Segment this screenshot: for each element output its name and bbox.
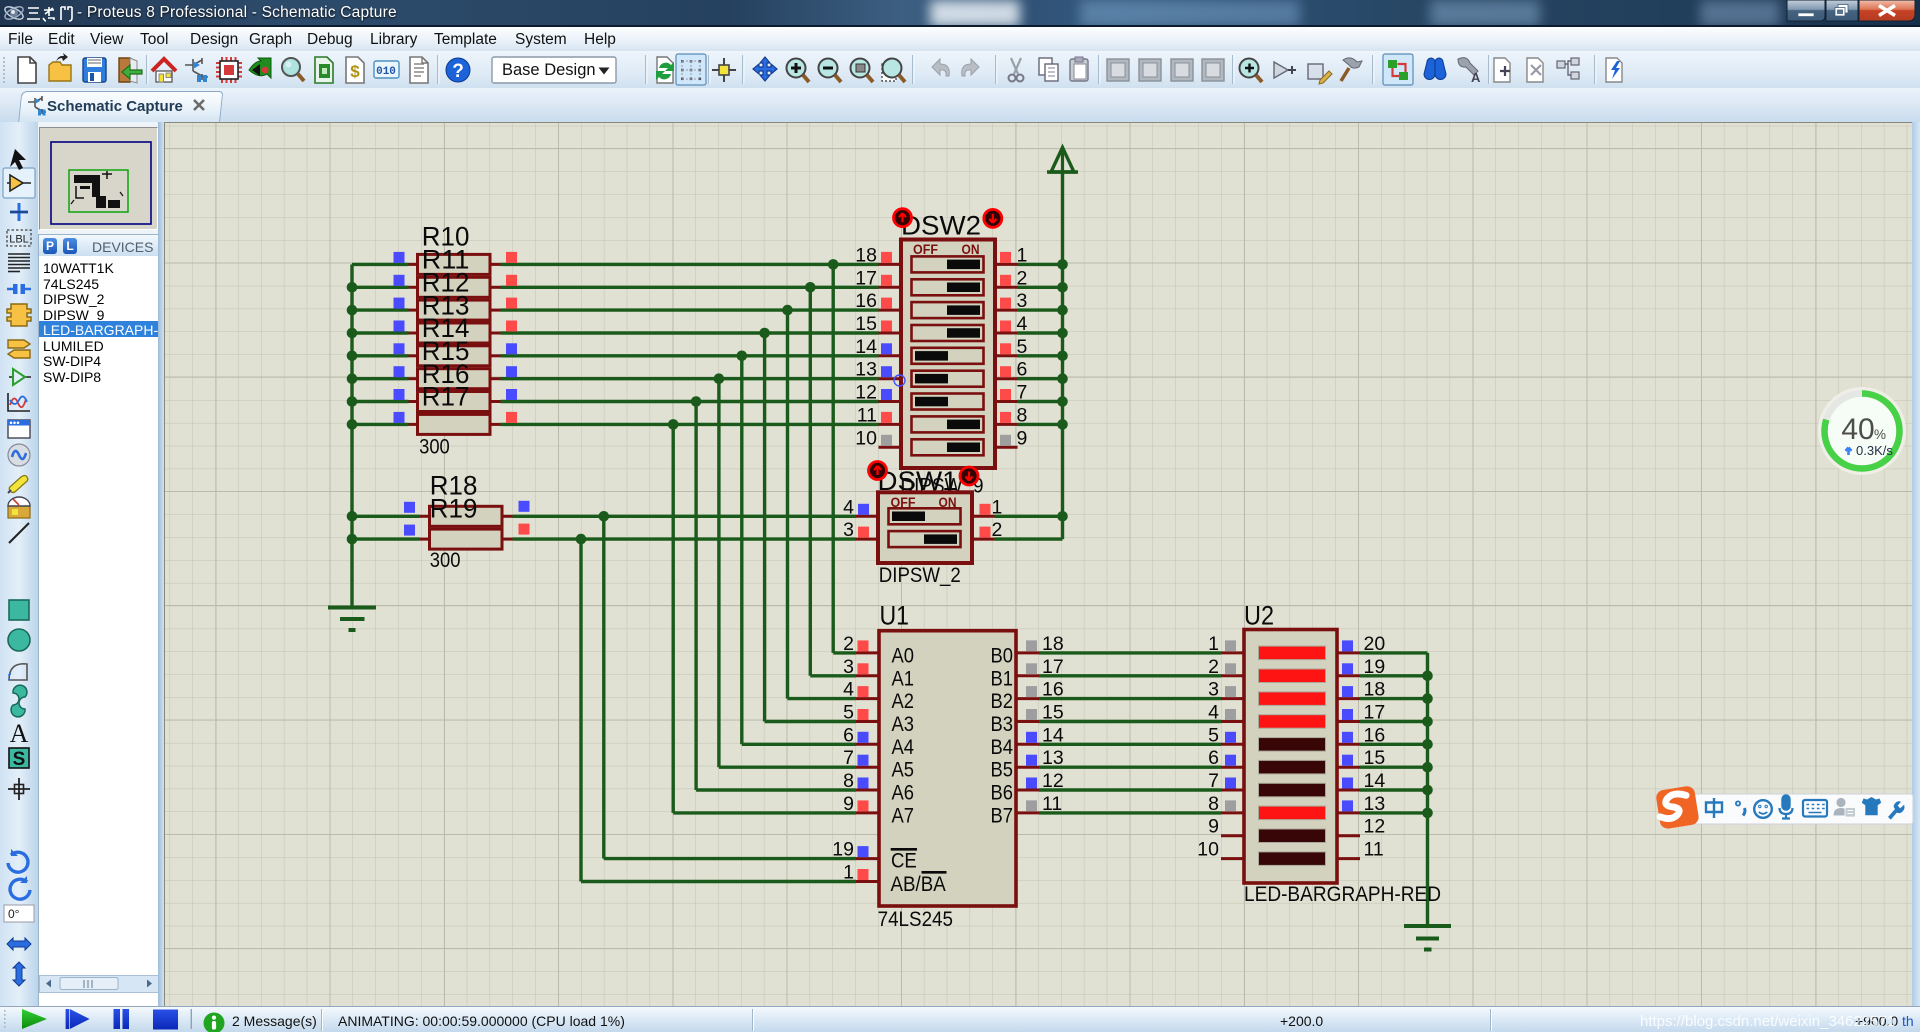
junction ground bus row 18 [1422, 693, 1433, 704]
U1 pin 17 (B1) [1016, 656, 1064, 678]
U2 pin 12 [1337, 816, 1385, 838]
wire DSW2 pin 3 to power bus [1018, 308, 1063, 311]
wire row R19 left [352, 537, 420, 540]
DSW2 pin 12 [855, 382, 901, 404]
label DSW2 [901, 211, 981, 241]
svg-text:010: 010 [376, 66, 396, 78]
svg-text:A: A [10, 719, 29, 748]
svg-text:10: 10 [855, 427, 877, 449]
label DIPSW_2 (DSW1 value) [879, 564, 961, 587]
label U2 [1244, 601, 1274, 631]
wire left ground bus vertical [350, 264, 353, 607]
DSW2 pin 17 [855, 267, 901, 289]
U1 pin 4 (A2) [843, 679, 879, 701]
DSW2 down actuator [984, 209, 1002, 227]
junction row R12 drop [782, 305, 793, 316]
junction left bus row R19 [347, 534, 358, 545]
wire U1 B5 to U2 pin 6 [1039, 766, 1221, 769]
svg-text:B6: B6 [991, 781, 1014, 805]
resistor R15 [394, 366, 518, 389]
wire to U1 pin A1 [810, 674, 856, 677]
label R17 [422, 382, 470, 412]
svg-text:2: 2 [843, 633, 854, 655]
svg-text:?: ? [452, 61, 464, 82]
svg-text:$: $ [350, 62, 360, 81]
wire to U1 pin A5 [719, 766, 856, 769]
svg-text:9: 9 [1017, 427, 1028, 449]
svg-text:74LS245: 74LS245 [878, 908, 953, 931]
svg-text:B2: B2 [991, 689, 1014, 713]
ground symbol right [1404, 926, 1451, 950]
wire row R16 to DSW2 pin 12 [501, 400, 879, 403]
DSW2 pin 1 [995, 244, 1027, 266]
junction power bus row 4 [1057, 328, 1068, 339]
wire U2 pin 17 to ground bus [1360, 720, 1428, 723]
label 74LS245 [878, 908, 953, 931]
wire row R17 left [352, 423, 409, 426]
svg-text:A0: A0 [892, 643, 915, 667]
svg-text:DSW1: DSW1 [878, 466, 958, 496]
wire row R11 to DSW2 pin 17 [501, 286, 879, 289]
U2 pin 5 [1208, 724, 1244, 746]
svg-text:3: 3 [1208, 679, 1219, 701]
svg-text:3: 3 [843, 656, 854, 678]
svg-text:14: 14 [855, 336, 877, 358]
svg-text:A2: A2 [892, 689, 915, 713]
wire row R13 to DSW2 pin 15 [501, 331, 879, 334]
junction ground bus row 13 [1422, 808, 1433, 819]
DSW2 pin 7 [995, 382, 1027, 404]
DSW2 switch 8 [912, 416, 984, 432]
svg-text:LED-BARGRAPH-RED: LED-BARGRAPH-RED [1244, 883, 1441, 906]
U1 pin 1 (AB/BA) [843, 862, 879, 884]
wire row R18 left [352, 515, 420, 518]
wire U1 B1 to U2 pin 2 [1039, 674, 1221, 677]
svg-text:U1: U1 [880, 601, 910, 631]
wire row R10 to DSW2 pin 18 [501, 263, 879, 266]
label R13 [422, 290, 470, 320]
DSW1 pin 2 [972, 519, 1002, 541]
wire row R15 left [352, 377, 409, 380]
wire row R18 to DSW1 [513, 515, 856, 518]
LED bar 7 [1259, 783, 1326, 797]
U2 pin 11 [1337, 839, 1384, 861]
wire vertical R12 to U1 A2 [786, 310, 789, 698]
wire vertical R10 to U1 A0 [832, 264, 835, 653]
DSW2 switch 4 [912, 325, 984, 341]
wire vertical R13 to U1 A3 [763, 333, 766, 722]
DSW1 pin 3 [843, 519, 878, 541]
label R16 [422, 359, 470, 389]
junction R18 drop [599, 511, 610, 522]
wire vertical R19 to U1 AB/BA [579, 539, 582, 881]
wire vertical R18 to U1 CE [602, 516, 605, 858]
svg-text:6: 6 [1208, 747, 1219, 769]
svg-text:%: % [1874, 427, 1886, 442]
junction ground bus row 14 [1422, 785, 1433, 796]
junction power bus row 1 [1057, 259, 1068, 270]
junction power bus row 6 [1057, 373, 1068, 384]
DSW2 pin 6 [995, 359, 1027, 381]
wire to U1 pin A0 [833, 651, 856, 654]
wire vertical R17 to U1 A7 [672, 424, 675, 813]
DSW1 switch 2 [889, 531, 961, 547]
junction ground bus row 16 [1422, 739, 1433, 750]
wire U1 B2 to U2 pin 3 [1039, 697, 1221, 700]
svg-text:U2: U2 [1244, 601, 1274, 631]
U2 pin 6 [1208, 747, 1244, 769]
DSW2 pin 3 [995, 290, 1027, 312]
wire row R12 left [352, 308, 409, 311]
U2 pin 1 [1208, 633, 1244, 655]
wire row R15 to DSW2 pin 13 [501, 377, 879, 380]
svg-text:7: 7 [1208, 770, 1219, 792]
svg-text:OFF: OFF [913, 241, 938, 257]
wire DSW2 pin 8 to power bus [1018, 423, 1063, 426]
svg-text:R17: R17 [422, 382, 470, 412]
wire U2 pin 15 to ground bus [1360, 766, 1428, 769]
DSW2 pin 9 [995, 427, 1027, 449]
wire U2 pin 20 to ground bus [1360, 651, 1428, 654]
LED bar 6 [1259, 760, 1326, 774]
DSW2 up actuator [894, 209, 912, 227]
DSW2 switch 1 [912, 256, 984, 272]
U2 pin 13 [1337, 793, 1385, 815]
label R19 [430, 494, 478, 524]
LED bar 3 [1259, 692, 1326, 706]
wire DSW1 pin 2 to power bus [995, 537, 1063, 540]
label R12 [422, 267, 470, 297]
LED bar 4 [1259, 715, 1326, 729]
junction row R10 drop [828, 259, 839, 270]
wire DSW2 pin 2 to power bus [1018, 286, 1063, 289]
wire row R12 to DSW2 pin 16 [501, 308, 879, 311]
junction row R14 drop [737, 351, 748, 362]
DSW2 pin 8 [995, 404, 1027, 426]
svg-text:2: 2 [1208, 656, 1219, 678]
wire U1 B0 to U2 pin 1 [1039, 651, 1221, 654]
wire U1 B3 to U2 pin 4 [1039, 720, 1221, 723]
svg-text:B7: B7 [991, 803, 1014, 827]
LED bar 10 [1259, 852, 1326, 866]
wire DSW2 pin 7 to power bus [1018, 400, 1063, 403]
U2 pin 8 [1208, 793, 1244, 815]
DSW1 pin 4 [843, 496, 878, 518]
wire DSW2 pin 5 to power bus [1018, 354, 1063, 357]
U1 pin 6 (A4) [843, 724, 879, 746]
wire U2 pin 14 to ground bus [1360, 788, 1428, 791]
svg-text:0°: 0° [8, 907, 20, 921]
wire to U1 pin A3 [765, 720, 856, 723]
junction power bus row 5 [1057, 351, 1068, 362]
resistor R12 [394, 298, 518, 321]
svg-text:3: 3 [843, 519, 854, 541]
LED bar 2 [1259, 669, 1326, 683]
svg-text:AB/BA: AB/BA [891, 872, 947, 896]
U1 pin 9 (A7) [843, 793, 879, 815]
resistor R14 [394, 343, 518, 366]
DSW2 switch 3 [912, 302, 984, 318]
DSW2 pin 18 [855, 244, 901, 266]
junction row R13 drop [759, 328, 770, 339]
junction power bus row 3 [1057, 305, 1068, 316]
junction left bus row R13 [347, 328, 358, 339]
DSW2 pin 11 [857, 404, 901, 426]
wire row R19 to DSW1 [513, 537, 856, 540]
wire row R16 left [352, 400, 409, 403]
DSW2 switch 9 [912, 439, 984, 455]
wire vertical R15 to U1 A5 [717, 379, 720, 768]
svg-text:4: 4 [843, 496, 854, 518]
svg-text:A5: A5 [892, 758, 915, 782]
wire row R14 left [352, 354, 409, 357]
DSW2 switch 2 [912, 279, 984, 295]
svg-text:A3: A3 [892, 712, 915, 736]
svg-text:4: 4 [843, 679, 854, 701]
svg-text:300: 300 [430, 549, 461, 572]
junction power bus row 2 [1057, 282, 1068, 293]
junction power bus row 8 [1057, 419, 1068, 430]
label DSW1 [878, 466, 958, 496]
ground symbol left [328, 608, 376, 631]
junction ground bus row 15 [1422, 762, 1433, 773]
wire row R14 to DSW2 pin 14 [501, 354, 879, 357]
junction row R11 drop [805, 282, 816, 293]
svg-text:8: 8 [1208, 793, 1219, 815]
wire U2 ground bus vertical [1426, 653, 1429, 926]
junction power bus DSW1 [1057, 511, 1068, 522]
U2 pin 4 [1208, 702, 1244, 724]
svg-text:ON: ON [962, 241, 980, 257]
LED bar 1 [1259, 646, 1326, 660]
svg-text:4: 4 [1208, 702, 1219, 724]
resistor R18 [404, 501, 530, 527]
U1 pin 16 (B2) [1016, 679, 1064, 701]
svg-text:11: 11 [857, 404, 877, 426]
junction ground bus row 17 [1422, 716, 1433, 727]
DSW1 up actuator [869, 462, 887, 480]
wire row R10 left [352, 263, 409, 266]
svg-text:17: 17 [855, 267, 877, 289]
U1 pin 18 (B0) [1016, 633, 1064, 655]
svg-text:15: 15 [855, 313, 877, 335]
U2 pin 16 [1337, 724, 1385, 746]
DSW2 pin 16 [855, 290, 901, 312]
U2 pin 7 [1208, 770, 1244, 792]
DSW1 switch 1 [889, 508, 961, 524]
LED bar 9 [1259, 829, 1326, 843]
svg-text:13: 13 [855, 359, 877, 381]
resistor R17 [394, 412, 518, 435]
junction power bus row 7 [1057, 396, 1068, 407]
wire vertical R14 to U1 A4 [740, 356, 743, 745]
label 300 (R19 value) [430, 549, 461, 572]
svg-text:0.3K/s: 0.3K/s [1856, 443, 1893, 458]
junction ground bus row 19 [1422, 671, 1433, 682]
LED bar 5 [1259, 738, 1326, 752]
label R10 [422, 222, 470, 252]
label U1 [880, 601, 910, 631]
DSW2 pin 5 [995, 336, 1028, 358]
label DIPSW_9 (DSW2 value) [901, 475, 984, 498]
U2 pin 3 [1208, 679, 1244, 701]
U1 pin 7 (A5) [843, 747, 879, 769]
svg-text:A7: A7 [892, 803, 915, 827]
DSW2 pin 15 [855, 313, 901, 335]
U1 pin 19 (CE) [832, 839, 879, 861]
svg-text:Base Design: Base Design [502, 61, 596, 79]
wire U1 B4 to U2 pin 5 [1039, 743, 1221, 746]
wire U2 pin 19 to ground bus [1360, 674, 1428, 677]
wire power bus vertical [1061, 172, 1064, 539]
DSW1 pin 1 [972, 496, 1002, 518]
wire DSW2 pin 1 to power bus [1018, 263, 1063, 266]
label R11 [422, 245, 470, 275]
DSW2 switch 6 [912, 371, 984, 387]
svg-text:DSW2: DSW2 [901, 211, 981, 241]
svg-text:LBL: LBL [9, 234, 29, 246]
wire row R17 to DSW2 pin 11 [501, 423, 879, 426]
svg-text:40: 40 [1841, 413, 1874, 446]
svg-text:16: 16 [855, 290, 877, 312]
label LED-BARGRAPH-RED [1244, 883, 1441, 906]
svg-text:CE: CE [891, 849, 917, 873]
U2 pin 19 [1337, 656, 1385, 678]
wire U1 B6 to U2 pin 7 [1039, 788, 1221, 791]
U2 pin 9 [1208, 816, 1244, 838]
wire to U1 pin A7 [673, 811, 856, 814]
U1 pin 11 (B7) [1016, 793, 1062, 815]
svg-text:DIPSW_2: DIPSW_2 [879, 564, 961, 587]
U1 pin 12 (B6) [1016, 770, 1064, 792]
svg-text:7: 7 [843, 747, 854, 769]
cursor marker circle [894, 375, 905, 386]
DIP switch DSW2 body [901, 240, 995, 469]
svg-text:A: A [1471, 70, 1481, 85]
DSW1 down actuator [960, 467, 978, 485]
svg-text:5: 5 [843, 702, 854, 724]
wire row R13 left [352, 331, 409, 334]
power symbol VCC arrow [1047, 148, 1078, 173]
DSW2 pin 10 [855, 427, 901, 449]
junction left bus row R15 [347, 373, 358, 384]
junction left bus row R14 [347, 351, 358, 362]
junction row R15 drop [714, 373, 725, 384]
junction row R17 drop [668, 419, 679, 430]
DSW2 pin 4 [995, 313, 1028, 335]
LED bargraph U2 body [1244, 630, 1337, 884]
label R18 [430, 471, 478, 501]
svg-text:1: 1 [843, 862, 854, 884]
svg-text:1: 1 [1208, 633, 1219, 655]
DIP switch DSW1 body [878, 492, 972, 563]
junction R19 drop [576, 534, 587, 545]
svg-text:11: 11 [1364, 839, 1384, 861]
svg-text:18: 18 [855, 244, 877, 266]
resistor R16 [394, 389, 518, 412]
U2 pin 2 [1208, 656, 1244, 678]
svg-text:B1: B1 [991, 666, 1014, 690]
svg-text:19: 19 [832, 839, 854, 861]
wire row R11 left [352, 286, 409, 289]
svg-text:A1: A1 [892, 666, 915, 690]
LED bar 8 [1259, 806, 1326, 820]
resistor R19 [404, 524, 530, 550]
svg-text:8: 8 [843, 770, 854, 792]
wire U1 B7 to U2 pin 8 [1039, 811, 1221, 814]
U1 pin 15 (B3) [1016, 702, 1064, 724]
svg-text:300: 300 [419, 436, 450, 459]
wire vertical R11 to U1 A1 [809, 287, 812, 676]
resistor R10 [394, 252, 518, 275]
svg-text:R19: R19 [430, 494, 478, 524]
svg-text:S: S [13, 749, 26, 770]
junction left bus row R12 [347, 305, 358, 316]
junction left bus row R18 [347, 511, 358, 522]
U2 pin 20 [1337, 633, 1385, 655]
U1 pin 13 (B5) [1016, 747, 1064, 769]
CJK title glyphs 三态门 drawn as strokes [26, 5, 76, 22]
svg-text:A6: A6 [892, 781, 915, 805]
svg-text:12: 12 [1364, 816, 1386, 838]
svg-text:9: 9 [1208, 816, 1219, 838]
svg-text:B3: B3 [991, 712, 1014, 736]
svg-text:B0: B0 [991, 643, 1014, 667]
svg-text:B4: B4 [991, 735, 1014, 759]
wire vertical R16 to U1 A6 [694, 402, 697, 791]
label R14 [422, 313, 470, 343]
wire to U1 pin A6 [696, 788, 856, 791]
svg-text:6: 6 [843, 724, 854, 746]
wire U2 pin 16 to ground bus [1360, 743, 1428, 746]
wire to U1 pin A2 [788, 697, 857, 700]
junction row R16 drop [691, 396, 702, 407]
svg-text:B5: B5 [991, 758, 1014, 782]
DSW2 switch 7 [912, 394, 984, 410]
U1 pin 8 (A6) [843, 770, 879, 792]
wire to U1 AB/BA pin [581, 880, 856, 883]
label R15 [422, 336, 470, 366]
wire to U1 CE pin [604, 857, 856, 860]
resistor R11 [394, 275, 518, 298]
wire U2 pin 18 to ground bus [1360, 697, 1428, 700]
wire U2 pin 13 to ground bus [1360, 811, 1428, 814]
DSW2 pin 13 [855, 359, 901, 381]
svg-text:A4: A4 [892, 735, 915, 759]
wire DSW2 pin 6 to power bus [1018, 377, 1063, 380]
U2 pin 17 [1337, 702, 1385, 724]
svg-text:12: 12 [855, 382, 877, 404]
DSW2 switch 5 [912, 348, 984, 364]
U2 pin 15 [1337, 747, 1385, 769]
wire DSW1 pin 1 to power bus [995, 515, 1063, 518]
wire to U1 pin A4 [742, 743, 856, 746]
junction left bus row R16 [347, 396, 358, 407]
U1 pin 2 (A0) [843, 633, 879, 655]
wire DSW2 pin 4 to power bus [1018, 331, 1063, 334]
junction left bus row R11 [347, 282, 358, 293]
svg-text:5: 5 [1208, 724, 1219, 746]
svg-text:9: 9 [843, 793, 854, 815]
svg-text:10: 10 [1197, 839, 1219, 861]
U1 pin 3 (A1) [843, 656, 879, 678]
label 300 (R17 value) [419, 436, 450, 459]
U1 pin 14 (B4) [1016, 724, 1064, 746]
DSW2 pin 2 [995, 267, 1027, 289]
U2 pin 18 [1337, 679, 1385, 701]
IC U1 74LS245 body [879, 631, 1016, 906]
junction left bus row R17 [347, 419, 358, 430]
